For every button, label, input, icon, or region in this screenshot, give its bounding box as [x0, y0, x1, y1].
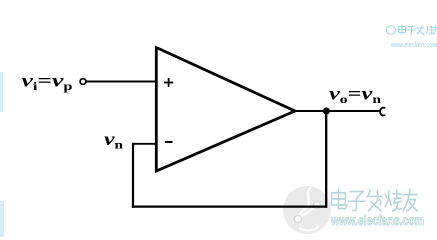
电: [332, 189, 347, 209]
op-amp plus (+) noninverting input marker: [164, 78, 173, 87]
watermark: small tile top right: [387, 25, 437, 35]
wire: output: [295, 110, 380, 112]
wire: input terminal to + input: [86, 81, 156, 83]
tiny 电子发烧友 simplified: [399, 25, 406, 35]
wire: feedback right vertical from output node down: [325, 111, 327, 208]
watermark: left edge partial tile (top): [0, 72, 3, 112]
wire: feedback horizontal into - input: [132, 143, 156, 145]
node: output junction dot: [323, 108, 330, 115]
output terminal (open circle, c-shaped): [380, 108, 385, 116]
op-amp U1 triangle: [156, 48, 295, 172]
watermark: elecfans logo (bottom right, light gray): [283, 186, 331, 234]
wire: feedback left vertical: [132, 143, 134, 208]
svg-text:vo=vn: vo=vn: [329, 84, 382, 107]
svg-text:vi=vp: vi=vp: [22, 71, 73, 94]
svg-text:www.elecfans.com: www.elecfans.com: [390, 40, 437, 49]
子: [349, 192, 365, 211]
watermark: left edge partial tile (bottom): [0, 201, 4, 237]
wire: feedback bottom horizontal: [132, 205, 327, 207]
友: [403, 189, 418, 211]
svg-text:www.elecfans.com: www.elecfans.com: [330, 213, 424, 228]
watermark: 电子发烧友 drawn glyphs (bottom right, hollow teal-gray): [332, 189, 418, 211]
op-amp minus (-) inverting input marker: [165, 141, 173, 143]
发: [367, 190, 382, 211]
input terminal (open circle): [80, 79, 86, 85]
烧: [385, 190, 401, 211]
svg-text:vn: vn: [104, 129, 124, 152]
